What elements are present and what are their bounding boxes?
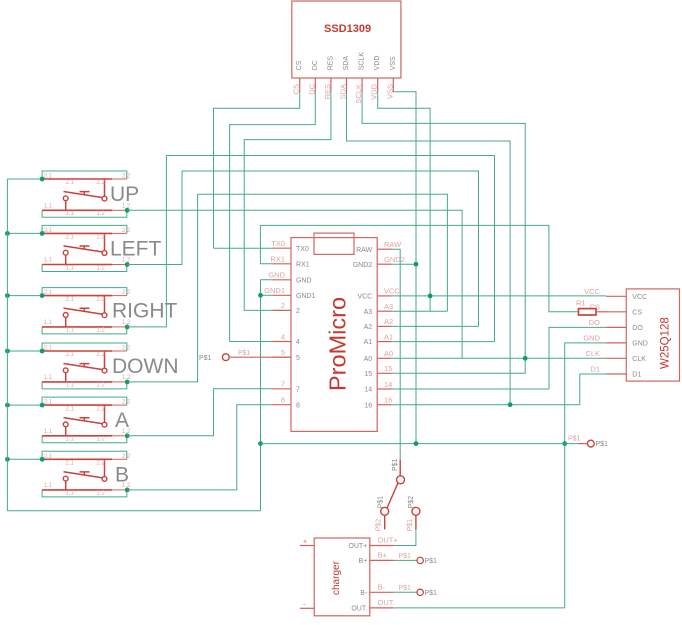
mcu pin stub RAW: [377, 248, 391, 250]
svg-text:VCC: VCC: [357, 294, 372, 301]
switch S6 B pin row 1.1-1.2: [42, 489, 112, 491]
junction UP pin 1.2: [125, 208, 130, 213]
svg-text:1.2: 1.2: [97, 491, 106, 497]
switch S2 LEFT right contact circle: [102, 251, 107, 256]
wire RIGHT exit: [127, 156, 494, 342]
junction bus at B: [5, 457, 10, 462]
switch SW1 contact circle P$1: [397, 476, 405, 484]
mcu U2 usb notch: [314, 233, 354, 254]
svg-text:1.1: 1.1: [44, 258, 53, 264]
svg-text:1.1: 1.1: [44, 204, 53, 210]
svg-text:GND2: GND2: [384, 255, 405, 264]
svg-text:P$2: P$2: [376, 519, 383, 532]
switch S6 B left contact circle: [63, 476, 68, 481]
display pin stub VDD: [377, 78, 379, 92]
display pin stub RES: [330, 78, 332, 92]
mcu pin stub A3: [377, 310, 391, 312]
wire GND pin elbow: [261, 280, 273, 296]
svg-text:P$1: P$1: [378, 496, 385, 509]
switch S4 DOWN pin row 1.1-1.2: [42, 381, 112, 383]
svg-text:2.2: 2.2: [122, 454, 131, 460]
charger pin stub B+: [370, 559, 394, 561]
display pin stub CS: [299, 78, 301, 92]
wire flash GND down: [565, 343, 606, 608]
charger U4 box: [314, 538, 370, 616]
switch S5 A pin row 2.1-2.2: [42, 404, 112, 406]
svg-text:A3: A3: [364, 309, 373, 316]
switch S1 UP pin row 1.1-1.2: [42, 209, 112, 211]
switch S4 DOWN pusher: [80, 364, 90, 368]
wire OUT- to GND: [394, 607, 565, 609]
mcu pin stub GND2: [377, 263, 391, 265]
switch S6 B pin row 2.1-2.2: [42, 458, 112, 460]
svg-text:VSS: VSS: [390, 56, 397, 70]
junction GND2: [414, 262, 419, 267]
wire bus link LEFT: [7, 232, 42, 234]
mcu pin stub 5: [272, 356, 291, 358]
wire GND riser to GND1: [260, 295, 262, 510]
wire UP to A0 net: [127, 210, 462, 358]
svg-text:OUT.: OUT.: [351, 605, 367, 612]
svg-text:2.2: 2.2: [122, 174, 131, 180]
wire SDA right: [347, 92, 511, 405]
junction 16-SDA: [508, 402, 513, 407]
svg-text:2.2: 2.2: [122, 228, 131, 234]
svg-text:P$1: P$1: [425, 590, 438, 597]
svg-text:P$1: P$1: [399, 553, 412, 560]
mcu pin stub 8: [272, 404, 291, 406]
wire A2 row: [392, 325, 479, 327]
svg-text:RES: RES: [327, 56, 334, 71]
switch S4 DOWN lever: [64, 364, 103, 370]
switch S5 A left contact: [65, 427, 67, 436]
switch S3 RIGHT pin row 2.1-2.2: [42, 295, 112, 297]
svg-text:GND: GND: [632, 341, 648, 348]
mcu pin stub 2: [272, 309, 291, 311]
svg-text:P$2: P$2: [408, 496, 415, 509]
svg-text:2.2: 2.2: [97, 352, 106, 358]
svg-text:SSD1309: SSD1309: [324, 23, 371, 35]
svg-text:RIGHT: RIGHT: [112, 300, 178, 323]
switch S5 A pin row 1.1-1.2: [42, 435, 112, 437]
junction A0-SCLK: [523, 356, 528, 361]
svg-text:GND: GND: [583, 333, 600, 342]
svg-text:1.2: 1.2: [97, 211, 106, 217]
switch SW2 pin stub: [415, 515, 417, 529]
switch S4 DOWN top loop wire: [42, 343, 127, 351]
svg-text:DOWN: DOWN: [112, 355, 179, 378]
switch S6 B bottom loop wire: [42, 490, 127, 497]
switch S3 RIGHT top loop wire: [42, 288, 127, 296]
wire GND left bus: [6, 179, 8, 511]
switch S6 B right contact circle: [102, 477, 107, 482]
junction GND riser: [258, 441, 263, 446]
junction B pin 2.1: [40, 457, 45, 462]
junction GND-VSS: [414, 441, 419, 446]
flash pin stub GND: [606, 342, 626, 344]
wire bus link UP: [7, 178, 42, 180]
switch S5 A bottom loop wire: [42, 436, 127, 443]
wire GND2 to GND: [392, 263, 417, 265]
mcu pin stub 14: [377, 388, 391, 390]
svg-text:A0: A0: [364, 356, 373, 363]
mcu pin stub 15: [377, 372, 391, 374]
wire VSS right: [393, 92, 416, 444]
switch S1 UP left contact circle: [63, 196, 68, 201]
switch S3 RIGHT pin row 1.1-1.2: [42, 326, 112, 328]
svg-text:A2: A2: [364, 324, 373, 331]
svg-text:8: 8: [281, 396, 285, 405]
svg-text:CS: CS: [590, 302, 600, 311]
switch S4 DOWN right contact circle: [102, 368, 107, 373]
switch S2 LEFT bottom loop wire: [42, 265, 127, 272]
connector J3 stub: [415, 559, 417, 561]
svg-text:TX0: TX0: [296, 246, 309, 253]
wire 14 row: [392, 388, 550, 390]
switch S1 UP bottom loop wire: [42, 210, 127, 217]
svg-text:2.1: 2.1: [44, 174, 53, 180]
svg-text:CS: CS: [632, 309, 642, 316]
svg-text:SCLK: SCLK: [359, 52, 366, 71]
svg-text:ProMicro: ProMicro: [325, 297, 351, 391]
junction VCC-VDD: [428, 294, 433, 299]
junction bus at RIGHT: [5, 293, 10, 298]
svg-text:A2: A2: [384, 317, 393, 326]
display pin stub SDA: [346, 78, 348, 92]
junction flash GND: [562, 441, 567, 446]
switch S5 A right contact circle: [102, 422, 107, 427]
switch S1 UP right contact circle: [102, 196, 107, 201]
svg-text:7: 7: [296, 386, 300, 393]
svg-text:P$1: P$1: [199, 355, 212, 362]
svg-text:DC: DC: [312, 60, 319, 70]
svg-text:GND1: GND1: [296, 293, 316, 300]
charger pin stub B-: [370, 591, 394, 593]
wire B exit to pin8: [127, 405, 272, 490]
mcu pin stub GND1: [272, 294, 291, 296]
switch S3 RIGHT lever: [64, 308, 103, 314]
wire SCLK right: [362, 92, 525, 358]
svg-text:1.2: 1.2: [97, 437, 106, 443]
flash U3 W25Q128 box: [626, 289, 679, 381]
wire SCLK to pin15: [392, 358, 526, 373]
svg-text:A0: A0: [384, 349, 393, 358]
junction GND1: [258, 293, 263, 298]
svg-text:B+: B+: [359, 558, 368, 565]
wire DC to pin4: [230, 341, 273, 343]
svg-text:B+: B+: [378, 551, 388, 560]
mcu pin stub A2: [377, 325, 391, 327]
switch S6 B pusher: [80, 472, 90, 476]
svg-text:7: 7: [281, 380, 285, 389]
svg-text:2.2: 2.2: [97, 461, 106, 467]
svg-text:OUT+: OUT+: [348, 543, 367, 550]
wire B+ out: [394, 559, 416, 561]
mcu pin stub TX0: [272, 247, 291, 249]
svg-text:16: 16: [364, 402, 372, 409]
svg-text:SDA: SDA: [343, 56, 350, 71]
svg-text:VCC: VCC: [632, 294, 647, 301]
junction DOWN pin 1.2: [125, 380, 130, 385]
svg-text:CS: CS: [296, 60, 303, 70]
junction LEFT pin 1.2: [125, 262, 130, 267]
switch S1 UP lever: [64, 192, 103, 198]
svg-text:VCC: VCC: [384, 287, 400, 296]
svg-text:P$1: P$1: [407, 519, 414, 532]
svg-text:+: +: [303, 539, 307, 546]
mcu pin stub A1: [377, 341, 391, 343]
display pin stub DC: [314, 78, 316, 92]
svg-text:A3: A3: [384, 302, 393, 311]
charger pin + stub: [300, 545, 314, 547]
flash pin stub VCC: [606, 295, 626, 297]
connector J1 P$1 circle: [222, 354, 229, 361]
svg-text:1.1: 1.1: [66, 211, 75, 217]
wire VDD right: [378, 92, 430, 311]
wire DOWN exit: [127, 194, 447, 382]
svg-text:15: 15: [364, 371, 372, 378]
svg-text:P$1: P$1: [425, 558, 438, 565]
switch SW1 contact circle P$2: [381, 507, 389, 515]
svg-text:A: A: [115, 409, 129, 432]
svg-text:OUT.: OUT.: [378, 598, 395, 607]
svg-text:1.1: 1.1: [44, 375, 53, 381]
resistor R1: [579, 309, 597, 315]
junction RIGHT pin 1.2: [125, 325, 130, 330]
mcu pin stub VCC: [377, 295, 391, 297]
svg-text:GND: GND: [296, 277, 312, 284]
svg-text:TX0: TX0: [271, 239, 285, 248]
switch S5 A right contact: [104, 405, 106, 422]
svg-text:P$1: P$1: [392, 458, 399, 471]
wire OUT+ to switch: [394, 529, 416, 545]
switch S1 UP pusher: [80, 192, 90, 196]
svg-text:B-: B-: [360, 590, 368, 597]
svg-text:CLK: CLK: [632, 356, 646, 363]
charger pin stub OUT.: [370, 607, 394, 609]
switch S5 A pusher: [80, 418, 90, 422]
switch S2 LEFT top loop wire: [42, 225, 127, 233]
wire DC down: [230, 92, 316, 342]
svg-text:15: 15: [384, 364, 392, 373]
svg-text:1.1: 1.1: [44, 320, 53, 326]
switch SW1 lever: [387, 483, 398, 507]
svg-text:LEFT: LEFT: [110, 237, 162, 260]
wire bus link B: [7, 458, 42, 460]
svg-text:1.2: 1.2: [97, 328, 106, 334]
wire RAW to switch: [392, 249, 401, 460]
switch S2 LEFT pin row 2.1-2.2: [42, 232, 112, 234]
svg-text:2.1: 2.1: [44, 400, 53, 406]
svg-text:UP: UP: [110, 183, 139, 206]
wire RES to pin2: [244, 309, 272, 311]
svg-text:R1: R1: [576, 299, 586, 308]
svg-text:GND2: GND2: [353, 262, 373, 269]
wire 16 row: [392, 404, 580, 406]
svg-text:OUT+: OUT+: [378, 536, 399, 545]
connector J4 stub: [415, 591, 417, 593]
wire GND horizontal: [261, 443, 579, 445]
svg-text:2.1: 2.1: [44, 290, 53, 296]
connector J2 P$1 stub: [578, 443, 587, 445]
svg-text:2.1: 2.1: [66, 406, 75, 412]
svg-text:2.2: 2.2: [97, 297, 106, 303]
switch S2 LEFT lever: [64, 246, 103, 252]
svg-text:2.2: 2.2: [122, 290, 131, 296]
svg-text:1.1: 1.1: [44, 483, 53, 489]
svg-text:2.2: 2.2: [97, 406, 106, 412]
junction RIGHT pin 2.1: [40, 293, 45, 298]
charger pin stub OUT+: [370, 545, 394, 547]
connector J3 P$1 circle: [417, 557, 423, 563]
svg-text:VDD: VDD: [374, 56, 381, 71]
switch S4 DOWN pin row 2.1-2.2: [42, 350, 112, 352]
wire CS down: [214, 92, 300, 248]
switch S4 DOWN right contact: [104, 351, 106, 368]
switch S1 UP pin row 2.1-2.2: [42, 178, 112, 180]
switch S1 UP right contact: [104, 179, 106, 196]
wire R1 to CS stub: [596, 311, 606, 313]
switch SW2 contact circle: [412, 507, 420, 515]
svg-text:2.2: 2.2: [122, 400, 131, 406]
svg-text:2.1: 2.1: [66, 461, 75, 467]
junction bus at A: [5, 403, 10, 408]
svg-text:2.1: 2.1: [44, 228, 53, 234]
svg-text:P$1: P$1: [238, 350, 251, 357]
switch S1 UP top loop wire: [42, 171, 127, 179]
flash pin stub D1: [606, 373, 626, 375]
switch S6 B right contact: [104, 459, 106, 476]
wire DO down to 14: [549, 327, 606, 389]
flash pin stub CLK: [606, 357, 626, 359]
mcu pin stub 16: [377, 404, 391, 406]
wire CS to TX0: [214, 247, 273, 249]
svg-text:D1: D1: [632, 372, 641, 379]
connector J4 P$1 circle: [417, 589, 423, 595]
svg-text:2.1: 2.1: [44, 454, 53, 460]
switch S1 UP left contact: [65, 201, 67, 211]
svg-text:RAW: RAW: [384, 240, 402, 249]
wire GND1 link: [261, 294, 273, 296]
switch S5 A lever: [64, 418, 103, 424]
switch S4 DOWN left contact: [65, 373, 67, 382]
wire A exit to pin7: [127, 389, 272, 436]
junction UP pin 2.1: [40, 177, 45, 182]
wire RX1 to flash CS: [260, 225, 578, 311]
svg-text:GND1: GND1: [264, 286, 285, 295]
junction bus at DOWN: [5, 349, 10, 354]
svg-text:2: 2: [296, 308, 300, 315]
svg-text:5: 5: [296, 355, 300, 362]
switch SW1 pin stub P$1: [399, 460, 401, 476]
svg-text:2.1: 2.1: [44, 346, 53, 352]
svg-text:1.1: 1.1: [66, 328, 75, 334]
switch S4 DOWN bottom loop wire: [42, 382, 127, 389]
connector J2 P$1 circle: [587, 440, 594, 447]
mcu pin stub GND: [272, 279, 291, 281]
switch S5 A left contact circle: [63, 422, 68, 427]
svg-text:1.1: 1.1: [66, 437, 75, 443]
svg-text:2.2: 2.2: [122, 346, 131, 352]
wire A1 row: [392, 341, 495, 343]
switch S3 RIGHT pusher: [80, 308, 90, 312]
svg-text:2.1: 2.1: [66, 235, 75, 241]
wire bus link A: [7, 404, 42, 406]
switch S3 RIGHT right contact: [104, 296, 106, 313]
svg-text:2.1: 2.1: [66, 180, 75, 186]
junction A pin 2.1: [40, 403, 45, 408]
mcu pin stub 7: [272, 388, 291, 390]
switch S2 LEFT pusher: [80, 246, 90, 250]
switch S3 RIGHT left contact: [65, 317, 67, 327]
mcu U2 ProMicro box: [291, 238, 377, 432]
svg-text:16: 16: [384, 396, 392, 405]
switch S6 B top loop wire: [42, 451, 127, 459]
switch S2 LEFT left contact circle: [63, 250, 68, 255]
mcu pin stub 4: [272, 341, 291, 343]
wire GND bus bottom: [7, 510, 260, 512]
switch S2 LEFT pin row 1.1-1.2: [42, 264, 112, 266]
switch S2 LEFT right contact: [104, 233, 106, 250]
svg-text:2.2: 2.2: [97, 180, 106, 186]
mcu pin stub A0: [377, 357, 391, 359]
svg-text:A1: A1: [384, 332, 393, 341]
flash pin stub CS: [606, 311, 626, 313]
switch S3 RIGHT bottom loop wire: [42, 327, 127, 334]
svg-text:8: 8: [296, 402, 300, 409]
svg-text:1.1: 1.1: [66, 491, 75, 497]
wire bus link DOWN: [7, 350, 42, 352]
junction LEFT pin 2.1: [40, 231, 45, 236]
switch S4 DOWN left contact circle: [63, 368, 68, 373]
svg-text:A1: A1: [364, 339, 373, 346]
svg-text:4: 4: [296, 339, 300, 346]
svg-text:P$1: P$1: [399, 585, 412, 592]
switch S6 B lever: [64, 472, 103, 478]
svg-text:D1: D1: [590, 365, 600, 374]
display U1 SSD1309 box: [292, 1, 401, 78]
svg-text:2.1: 2.1: [66, 297, 75, 303]
junction B pin 1.2: [125, 488, 130, 493]
switch SW1 pin stub P$2: [384, 515, 386, 529]
svg-text:1.1: 1.1: [44, 429, 53, 435]
svg-text:B: B: [115, 463, 129, 486]
wire B- out: [394, 591, 416, 593]
svg-text:RAW: RAW: [356, 247, 372, 254]
switch S2 LEFT left contact: [65, 255, 67, 264]
wire A0 CLK row: [392, 357, 607, 359]
svg-text:4: 4: [281, 332, 285, 341]
wire D1 to 16: [580, 374, 606, 405]
wire A3 row: [392, 310, 448, 312]
display pin stub VSS: [392, 78, 394, 92]
switch S6 B left contact: [65, 481, 67, 490]
svg-text:DO: DO: [589, 318, 600, 327]
svg-text:W25Q128: W25Q128: [660, 317, 672, 369]
svg-text:charger: charger: [331, 560, 342, 595]
svg-text:B-: B-: [378, 583, 386, 592]
junction bus at LEFT: [5, 231, 10, 236]
svg-text:RX1: RX1: [296, 261, 310, 268]
switch S3 RIGHT left contact circle: [63, 313, 68, 318]
svg-text:GND: GND: [268, 271, 285, 280]
svg-text:P$1: P$1: [568, 436, 581, 443]
svg-text:1.1: 1.1: [66, 265, 75, 271]
svg-text:2.2: 2.2: [97, 235, 106, 241]
svg-text:1.2: 1.2: [97, 383, 106, 389]
wire VCC row: [392, 295, 607, 297]
flash pin stub DO: [606, 326, 626, 328]
